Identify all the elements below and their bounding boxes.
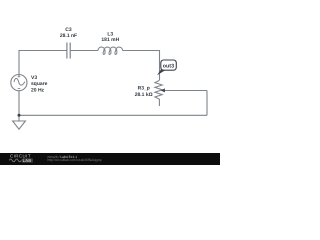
wire right vertical: corner down to pot bbox=[159, 50, 161, 80]
label L3 181 mH bbox=[101, 32, 119, 44]
svg-text:http://circuitlab.com/c/rab35f: http://circuitlab.com/c/rab35f5u0qgnp bbox=[48, 158, 102, 162]
wire pot bottom stub bbox=[158, 99, 160, 106]
wire right loop vertical bbox=[206, 91, 208, 116]
svg-text:181 mH: 181 mH bbox=[101, 37, 119, 43]
svg-text:28.1 kΩ: 28.1 kΩ bbox=[135, 92, 153, 98]
svg-text:28.1 nF: 28.1 nF bbox=[60, 33, 77, 39]
node flag out3 bbox=[158, 60, 177, 75]
label C3 28.1 nF bbox=[60, 27, 77, 39]
voltage source V3 bbox=[11, 75, 27, 91]
svg-text:LAB: LAB bbox=[23, 158, 32, 163]
ground bbox=[13, 121, 26, 129]
wire left vertical lower bbox=[18, 91, 20, 121]
capacitor C3 bbox=[67, 43, 70, 59]
wire bottom rail bbox=[19, 114, 207, 116]
wire top rail mid: C3 to L3 bbox=[70, 50, 98, 52]
svg-text:R3_p: R3_p bbox=[138, 86, 150, 92]
label V3 square 20 Hz bbox=[31, 75, 48, 94]
svg-text:out3: out3 bbox=[163, 63, 174, 69]
label R3_p 28.1 kOhm bbox=[135, 86, 153, 98]
svg-text:square: square bbox=[31, 81, 48, 87]
svg-text:V3: V3 bbox=[31, 75, 37, 81]
svg-text:20 Hz: 20 Hz bbox=[31, 87, 45, 93]
wire top rail right: L3 to corner bbox=[123, 50, 160, 52]
inductor L3 bbox=[98, 47, 123, 54]
wire wiper horizontal bbox=[165, 90, 207, 92]
wire top rail left: source to C3 bbox=[19, 50, 67, 52]
potentiometer R3_p bbox=[155, 80, 165, 99]
svg-text:C3: C3 bbox=[65, 27, 72, 33]
wire left vertical upper bbox=[18, 50, 20, 75]
junction node at ground/bottom rail bbox=[18, 114, 21, 117]
footer watermark bar bbox=[0, 153, 220, 165]
